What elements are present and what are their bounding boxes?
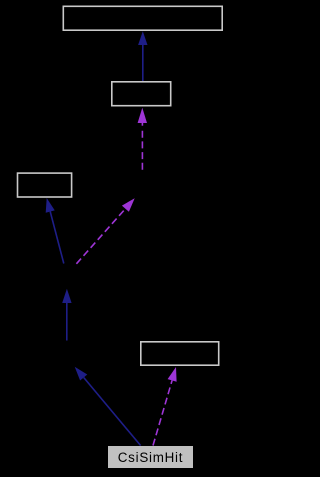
svg-text:CsiSimHit: CsiSimHit	[118, 450, 184, 465]
edge: dashed usage arrow, hidden node A to hidden node B	[76, 198, 134, 264]
edge: solid inheritance arrow, second box to top box	[138, 31, 147, 81]
node: top class box (label hidden)	[63, 6, 222, 30]
node: CsiSimHit (current class, grey filled)	[108, 446, 193, 468]
edge: solid inheritance arrow, CsiSimHit to hidden node A2	[75, 367, 141, 446]
node: second class box (label hidden)	[112, 82, 171, 106]
edge: dashed usage arrow, CsiSimHit to right box	[153, 367, 177, 446]
edge: solid inheritance arrow, hidden node A2 to hidden node A	[62, 289, 71, 341]
edge: dashed usage arrow, hidden node B to second box	[138, 108, 147, 173]
node: right class box (label hidden)	[141, 342, 219, 365]
edge: solid inheritance arrow, hidden node A to left box	[46, 198, 64, 264]
node: left class box (label hidden)	[18, 173, 72, 197]
